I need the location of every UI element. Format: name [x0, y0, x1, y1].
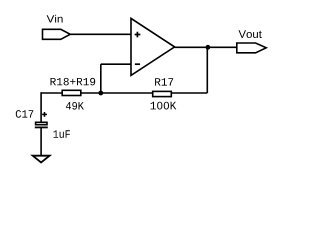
resistor R17 label: [155, 78, 173, 85]
capacitor C17 plus polarity mark: [42, 112, 47, 117]
wire op-amp output to Vout: [175, 46, 236, 48]
value 49K: [66, 102, 84, 110]
node junction at output: [206, 45, 211, 50]
resistor R18+R19: [62, 90, 81, 95]
wire R18+R19 to junction and R17: [81, 92, 152, 94]
wire Vin to op-amp non-inverting input: [70, 33, 131, 35]
node junction at inverting rail: [98, 91, 103, 96]
resistor R17: [153, 91, 172, 96]
wire feedback vertical to output: [206, 47, 208, 93]
capacitor C17 label: [16, 110, 34, 118]
wire C17 to ground: [40, 127, 42, 155]
wire inverting input vertical down to feedback rail: [100, 64, 102, 93]
resistor R18+R19 label: [51, 78, 96, 86]
ground: [33, 156, 50, 163]
value 100K: [151, 102, 177, 110]
wire R17 to feedback vertical: [171, 92, 207, 94]
net label Vin: [47, 15, 63, 23]
capacitor C17: [35, 122, 48, 127]
op-amp U1: [131, 18, 175, 75]
wire inverting input horizontal: [101, 63, 131, 65]
value 1uF: [54, 130, 70, 138]
connector Vin: [43, 29, 71, 39]
wire left rail to R18+R19: [41, 92, 62, 94]
net label Vout: [239, 30, 262, 38]
connector Vout: [237, 43, 266, 53]
wire junction to C17 corner: [40, 92, 42, 122]
